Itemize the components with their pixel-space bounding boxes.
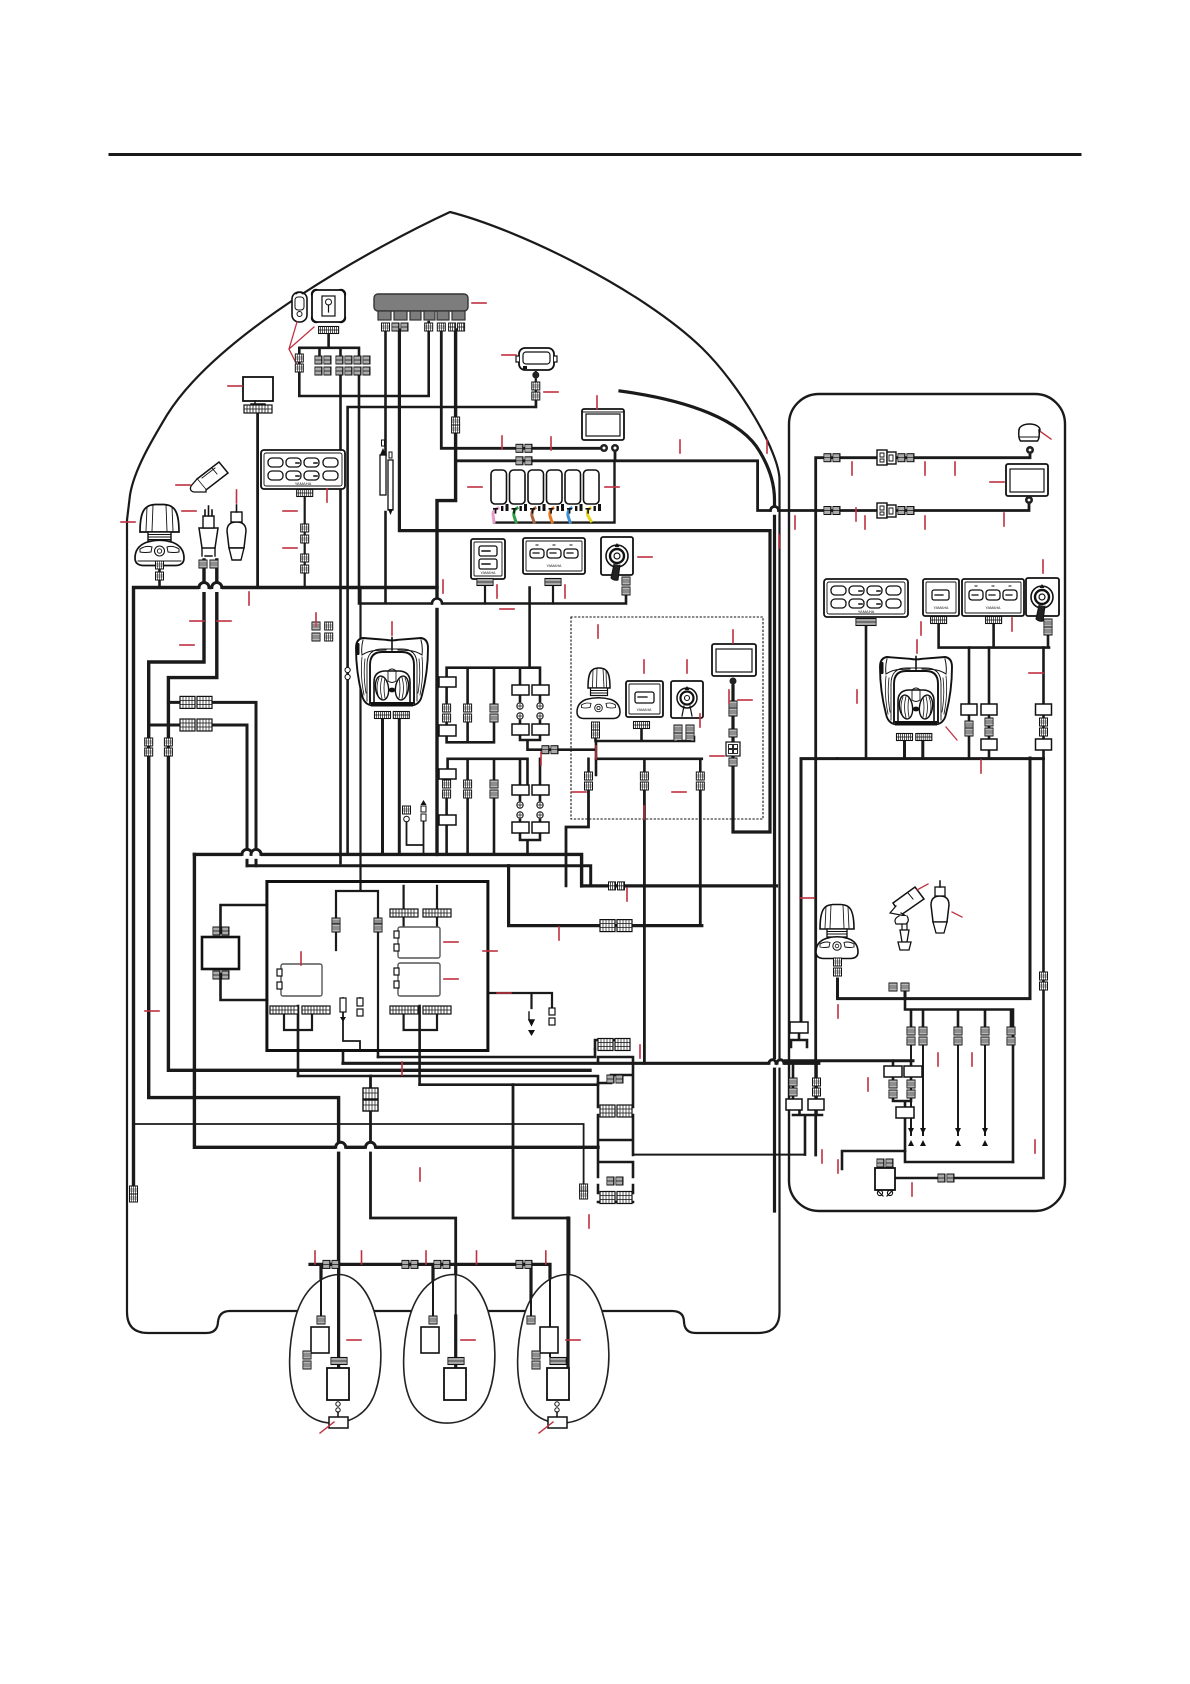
helm remote control (dual lever) xyxy=(356,638,429,707)
panel B (3 switches) xyxy=(523,538,585,574)
wire: station bus y758 xyxy=(801,741,1044,1023)
left trunk bottom connector xyxy=(130,1186,138,1194)
header rule xyxy=(110,153,1080,156)
wire: station left chain xyxy=(791,1032,822,1155)
left module xyxy=(202,937,239,969)
wire: big box drops to bundle xyxy=(298,1006,420,1085)
wire: display2b stem chain xyxy=(732,681,734,832)
tiny ball on x347 xyxy=(345,667,350,672)
wire: plug2 trunk x216.8 -> x168.4 xyxy=(168,560,590,1070)
wire: station w1 y457.7 xyxy=(816,455,1030,1155)
wire: ladder colD/E merge to y749.7 out xyxy=(520,694,596,775)
wire: station feeds below bus xyxy=(837,757,839,759)
engine 3 internals xyxy=(527,1218,580,1433)
display 2 xyxy=(712,644,756,676)
station joystick xyxy=(816,905,858,959)
connectors on x316/x328 verticals xyxy=(312,622,320,630)
wire: engine1 inner drops xyxy=(321,1320,550,1380)
engine feed drops connectors xyxy=(907,1027,915,1045)
wire: ladder col A lower links xyxy=(447,686,494,742)
wire: lower ladder bottoms to bus xyxy=(447,779,494,854)
plug 1 (main sw) xyxy=(199,506,218,556)
wire: joystick2 stem + bus y998.6 xyxy=(838,758,1031,999)
wire: x514 drop to engine3 jog xyxy=(513,1085,569,1367)
receiver unit (square with petals) xyxy=(312,290,346,323)
station plug device xyxy=(931,881,962,933)
wire: box left small boxL links xyxy=(221,905,267,1000)
wire: mid drops x893/x911 xyxy=(893,1061,911,1151)
joystick 2 xyxy=(577,668,620,719)
station display xyxy=(1006,464,1048,496)
panel E (start stop sw) xyxy=(671,681,703,718)
wire: hub tab2 x399.4 -> y530.6 long line to x770 xyxy=(399,330,770,832)
svg-text:YAMAHA: YAMAHA xyxy=(295,481,312,486)
svg-text:YAMAHA: YAMAHA xyxy=(547,564,563,568)
connectors on x1043 right column xyxy=(1040,972,1048,980)
engine 1 outline xyxy=(290,1275,381,1424)
wire: hull-hugging thick feed down right side xyxy=(620,391,775,1211)
battery switch box xyxy=(875,1159,895,1196)
wire: bundle lines xyxy=(378,1049,595,1057)
engine 2 outline xyxy=(404,1275,495,1424)
wire: engine3 station drops verticals xyxy=(911,1041,985,1135)
8-button switch panel helm xyxy=(261,450,345,489)
wire hops (crossing bumps) xyxy=(199,506,784,1151)
svg-text:YAMAHA: YAMAHA xyxy=(481,571,497,575)
wire: speaker line y407 + trunk x347.6 xyxy=(348,396,536,854)
wire: lower ladder tops y758.8 xyxy=(448,759,528,785)
inner small stems connectors xyxy=(332,918,340,926)
connector stacks x370 bundle drop xyxy=(363,1088,378,1111)
wire: station right columns x969/x988/x1043 xyxy=(969,648,1044,759)
lower ladder xyxy=(439,769,456,779)
wire: six-pack feeds from colored hooks bracket xyxy=(494,461,615,523)
wire: panelB stem xyxy=(552,582,554,604)
wire: 8btn panel stem xyxy=(304,497,306,587)
key switch C xyxy=(601,537,633,580)
modules 2/3 xyxy=(398,927,440,958)
wire: bus y885.9 xyxy=(582,884,777,887)
wire: dotted drops down xyxy=(566,788,700,1063)
wire: display2 dot2 down to y460.8 line jog to station y510.5 xyxy=(456,452,1029,511)
wire: bus y854.4 xyxy=(194,854,581,886)
right outputs plugs xyxy=(529,1012,534,1025)
station right inline rects column xyxy=(961,704,977,715)
wire: bus y865.7 xyxy=(247,866,591,886)
panel D xyxy=(626,681,663,717)
gps antenna puck xyxy=(1019,424,1051,441)
inline plug pair near remote xyxy=(403,800,427,822)
wire: x370.5 drop to engines jog xyxy=(371,1076,456,1264)
engine 1 internals xyxy=(303,1264,361,1433)
wire: plug1 trunk x204 -> x148.7 xyxy=(149,560,339,1264)
display (helm) xyxy=(582,409,624,440)
wire2 connectors xyxy=(824,507,840,515)
small panel A xyxy=(471,539,505,579)
wire: station panel stems to y647 xyxy=(939,622,1049,648)
wire: lower ladder D/E xyxy=(520,759,540,855)
trunk inline connector stacks x148/x168 xyxy=(145,738,153,756)
connectors under hub tabs xyxy=(382,323,390,331)
station remote control xyxy=(880,657,953,726)
connector stacks on dotted drops xyxy=(585,772,593,790)
wire: chain column x598-x633 xyxy=(595,1040,633,1202)
hub bar (gray) xyxy=(374,294,468,320)
wire: trunk x194.4 xyxy=(194,854,598,1147)
wire: inline fuse lower wires xyxy=(343,998,360,1051)
ladder col B/C stacks xyxy=(464,704,472,722)
wire: bus y1060.7 right part xyxy=(780,1059,913,1062)
bracket connectors row xyxy=(295,354,303,372)
wire: connector rows y702/y725 and drops x247/x256 xyxy=(149,702,256,865)
module 1 xyxy=(281,964,322,996)
plug 2 xyxy=(227,505,246,560)
station 3-switch panel xyxy=(962,579,1024,616)
wire: thin y1154.6 station link xyxy=(633,1115,805,1155)
inline fuses on x385.5 xyxy=(380,440,393,515)
wire: hub tab1 x385.5 fuses to y603 xyxy=(384,330,387,603)
wire: box1 stems xyxy=(284,1015,312,1051)
wire: hub tab4 x441.3 -> y448 to display dot xyxy=(441,330,600,448)
station single panel xyxy=(923,579,959,616)
engine 3 outline xyxy=(518,1275,609,1424)
six-pack relay bank xyxy=(491,470,599,504)
wire: inline plug pair merge xyxy=(407,817,424,854)
svg-text:YAMAHA: YAMAHA xyxy=(934,606,950,610)
station 8 button panel xyxy=(824,579,908,617)
dotted option box xyxy=(571,617,763,819)
station key switch xyxy=(1026,578,1059,621)
wire1 connectors xyxy=(824,454,840,462)
connector on y448 line xyxy=(516,444,532,452)
joystick helm xyxy=(135,505,184,566)
red leader lines fob/receiver xyxy=(289,322,314,363)
wire: bracket horizontal y347.8 xyxy=(299,333,359,358)
wire: box2/3 cluster stems xyxy=(404,886,437,1051)
wire: small panelA stem xyxy=(484,582,486,604)
ladder col A items xyxy=(439,677,456,687)
wire: key2 connector drop inside dotted xyxy=(678,740,690,742)
svg-text:YAMAHA: YAMAHA xyxy=(858,609,875,614)
wire: thin y1124 xyxy=(134,1124,584,1185)
wire: bracket drop x359 trunk to key line y603.5 xyxy=(359,370,626,604)
engine 2 internals xyxy=(421,1264,475,1400)
wire: bracket drop x340.5 trunk xyxy=(339,370,342,863)
red tick hub xyxy=(472,302,486,304)
station bottom small boxes xyxy=(790,1022,808,1033)
svg-text:YAMAHA: YAMAHA xyxy=(986,606,1002,610)
colored hook connectors under six-pack xyxy=(493,508,591,522)
svg-text:YAMAHA: YAMAHA xyxy=(637,708,653,712)
wire: helm main bus y587.5 xyxy=(134,588,438,1191)
station trim/tilt device xyxy=(890,884,928,950)
inline fuse pair inside box xyxy=(340,998,346,1012)
wire: speaker stem xyxy=(535,372,537,407)
bracket wide connector under receiver xyxy=(319,327,339,334)
monitor xyxy=(243,377,273,413)
ladder col D/E xyxy=(512,685,529,695)
wire: joystick stem xyxy=(158,560,161,587)
wire: dotted box stems xyxy=(589,729,702,775)
wire: box right outputs xyxy=(488,993,552,1008)
wire: engine bus y1264.4 xyxy=(310,1264,550,1367)
wire: hub tab5 x455.6 -> trunk x437 xyxy=(437,330,456,854)
wire: bracket left drop x299.3 -> y396 link xyxy=(299,322,428,396)
second station rounded box xyxy=(789,394,1065,1211)
wire: monitor stem xyxy=(256,410,259,587)
connectors rows y702/y725 xyxy=(180,696,212,708)
speaker unit xyxy=(516,348,557,370)
arrows at drop ends xyxy=(908,1128,988,1146)
engine bus connectors + red ticks xyxy=(323,1260,339,1268)
wire: engine ecu tails xyxy=(339,1399,568,1417)
wire: station bottom links xyxy=(842,759,1044,1178)
wire: bus y925.6 xyxy=(509,866,702,926)
key fob xyxy=(292,292,307,322)
boat hull outline xyxy=(127,212,780,1333)
wire: helm remote stems xyxy=(383,718,400,854)
wire: station 8btn stem xyxy=(865,626,868,758)
wire: big box inner stems xyxy=(336,588,378,1050)
wire: ladder feed from bus y587 xyxy=(447,588,540,708)
red tick plug2 xyxy=(236,490,238,503)
red tick monitor xyxy=(228,385,242,387)
wire: bus y1009.5 + engine drops xyxy=(905,999,1013,1162)
transducer angled xyxy=(190,462,228,492)
